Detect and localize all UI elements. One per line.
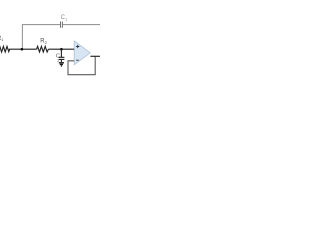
svg-text:1: 1 xyxy=(65,17,68,22)
wire top feedback branch with C1 xyxy=(22,25,100,49)
wire minus input feedback loop xyxy=(68,57,95,75)
ground xyxy=(59,63,64,66)
capacitor C1 plates xyxy=(61,22,63,28)
resistor R2 xyxy=(37,46,49,52)
resistor R1 xyxy=(0,46,22,52)
wire node B down to C2 xyxy=(60,49,62,57)
svg-text:2: 2 xyxy=(45,40,48,45)
wire node A to R2 xyxy=(22,48,37,50)
node B junction dot xyxy=(60,48,63,51)
node A junction dot xyxy=(21,48,24,51)
wire op-amp output xyxy=(90,55,100,57)
op-amp U1 xyxy=(74,41,90,65)
wire R2 to op-amp plus input xyxy=(48,48,74,50)
svg-text:1: 1 xyxy=(1,37,4,42)
wire C2 to ground xyxy=(60,59,62,62)
op-amp minus input symbol xyxy=(76,59,79,61)
capacitor C2 plates xyxy=(59,57,65,59)
op-amp plus input symbol xyxy=(76,45,79,48)
